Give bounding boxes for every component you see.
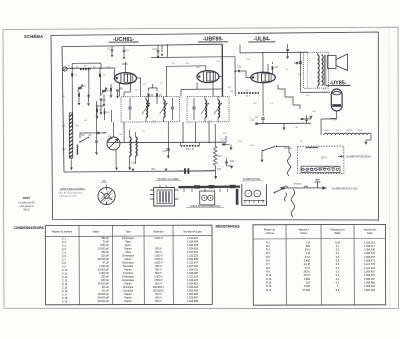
wire UCH81 top	[125, 62, 127, 73]
core arrows MF2	[201, 103, 222, 114]
coil L4	[77, 145, 78, 155]
svg-text:1 M: 1 M	[306, 241, 310, 244]
svg-text:15k: 15k	[120, 89, 123, 91]
svg-text:1.326.898: 1.326.898	[187, 300, 199, 303]
wire antenna upper link	[72, 62, 101, 64]
resistor R16	[88, 94, 90, 97]
transformer block inner	[157, 190, 172, 204]
ground arrow at bus 3	[165, 169, 168, 172]
wire heater start	[320, 119, 322, 135]
wire UCH81 grid	[114, 69, 116, 78]
svg-text:Secteur: Secteur	[284, 147, 292, 150]
svg-text:+: +	[256, 192, 258, 196]
small switch drawing right	[275, 189, 284, 193]
wire R6 R7 tie	[149, 87, 158, 89]
wire MF2 pri top	[204, 97, 206, 100]
svg-text:R10: R10	[230, 161, 235, 163]
svg-text:R5 1 M: R5 1 M	[186, 149, 193, 151]
wire UCH81 cathode	[130, 84, 132, 92]
fuse bumps on mains wire	[284, 186, 308, 188]
variable capacitor C7	[102, 90, 106, 91]
wire UL84 grid in	[246, 77, 251, 79]
capacitor C11	[157, 51, 160, 52]
ground	[123, 57, 126, 60]
svg-text:R 2: R 2	[266, 245, 271, 248]
arrowhead C1	[111, 55, 113, 58]
wire UY85 to heater	[330, 118, 337, 120]
svg-text:bobinage du cadre: bobinage du cadre	[59, 195, 78, 197]
switch contact oscillator	[80, 138, 88, 142]
svg-text:a été portée à: a été portée à	[20, 205, 35, 208]
wire avc up	[225, 136, 227, 142]
tube V3 UL84 envelope	[251, 72, 276, 82]
svg-text:La valeur de R3: La valeur de R3	[19, 201, 36, 204]
wire UCH81 plate out	[137, 77, 141, 79]
capacitor C22	[305, 119, 308, 120]
interconnect cable	[178, 185, 240, 188]
ground	[78, 103, 81, 106]
ground	[96, 116, 99, 119]
svg-text:470 K: 470 K	[303, 274, 310, 277]
mains switch	[263, 146, 276, 150]
wire L3 up b	[135, 132, 137, 137]
wire B+ down	[300, 52, 302, 92]
junction audio line	[234, 71, 236, 73]
transformer pin 5	[174, 198, 178, 200]
svg-text:C15: C15	[238, 67, 243, 69]
svg-text:Sens de l’enroulement du: Sens de l’enroulement du	[58, 191, 83, 194]
svg-text:470k: 470k	[238, 141, 242, 143]
transformer pin 4	[174, 189, 178, 191]
svg-text:12,6V: 12,6V	[358, 130, 364, 132]
svg-text:0,25: 0,25	[335, 241, 340, 244]
wire UBF89 grid top	[166, 65, 205, 68]
wire MF1 sec to grid	[165, 66, 167, 97]
svg-text:260 K: 260 K	[303, 271, 310, 274]
svg-text:2.400: 2.400	[304, 260, 311, 263]
svg-text:6,3V: 6,3V	[336, 130, 341, 132]
resistor R14	[299, 61, 301, 64]
staircase feedback wire	[278, 85, 300, 109]
wire mains alt	[280, 187, 327, 189]
svg-text:1.093.427: 1.093.427	[364, 271, 376, 274]
capacitor C4 cathode	[261, 118, 264, 119]
svg-text:Valeur: Valeur	[92, 230, 99, 233]
svg-text:47k: 47k	[186, 63, 189, 65]
wire drop to AGC bus	[167, 45, 169, 58]
svg-text:R 14: R 14	[266, 289, 272, 292]
svg-text:2,2 M: 2,2 M	[304, 263, 310, 266]
wire heater end	[370, 135, 372, 140]
svg-text:0,1: 0,1	[336, 274, 340, 277]
ground arrow at bus 2	[132, 169, 135, 172]
svg-text:0,2: 0,2	[336, 289, 340, 292]
wire UBF89 lower bus	[181, 88, 223, 90]
wire R13 bottom	[215, 166, 217, 175]
svg-text:1.387.904: 1.387.904	[364, 289, 376, 292]
svg-text:Code: Code	[367, 232, 373, 235]
output transformer T1 can	[303, 52, 328, 88]
capacitor C21	[255, 123, 258, 124]
resistor R3	[104, 111, 106, 114]
wire MF2 pri bot	[204, 118, 206, 123]
svg-text:0,5: 0,5	[336, 263, 340, 266]
wire R13 top	[214, 124, 216, 146]
transformer pin 2	[150, 194, 154, 196]
coil T1 secondary	[322, 55, 324, 86]
svg-text:1.093.467: 1.093.467	[364, 274, 376, 277]
wire MF drop c	[208, 122, 210, 142]
capacitor C19	[225, 162, 228, 163]
svg-text:1.800: 1.800	[304, 278, 311, 281]
svg-text:ALIMENTATION BOIS: ALIMENTATION BOIS	[346, 156, 371, 159]
svg-text:56 K: 56 K	[305, 249, 310, 252]
wire C10 drop	[123, 46, 125, 50]
capacitor C5	[100, 99, 103, 100]
svg-text:0,2: 0,2	[336, 281, 340, 284]
svg-text:NOTA: NOTA	[23, 196, 30, 200]
alimentation pin	[253, 201, 255, 204]
capacitors table column line	[143, 225, 145, 304]
svg-text:1.093.881: 1.093.881	[364, 281, 376, 284]
wire UBF89 diode down	[196, 83, 198, 90]
svg-text:1.093.330: 1.093.330	[364, 249, 376, 252]
svg-text:0,1: 0,1	[336, 252, 340, 255]
svg-text:R 6: R 6	[266, 260, 271, 263]
svg-text:RÉSISTANCES: RÉSISTANCES	[216, 224, 241, 229]
ground under L1	[70, 167, 73, 170]
wire UL84 anode up	[262, 53, 264, 73]
svg-text:R 8: R 8	[266, 267, 271, 270]
svg-text:R13: R13	[218, 156, 223, 158]
wire screen rail	[222, 44, 224, 96]
wire tone line	[256, 122, 311, 125]
svg-text:Watts: Watts	[334, 232, 341, 235]
wire L3 up a	[129, 130, 131, 137]
capacitors table frame	[45, 225, 212, 305]
coil L3 primary	[130, 137, 132, 156]
svg-text:C17: C17	[221, 140, 226, 142]
core arrows MF1	[142, 103, 168, 114]
wire HT line to output transformer	[240, 51, 308, 54]
schematic outer frame	[51, 32, 378, 220]
svg-text:ALIMENTATION S 205: ALIMENTATION S 205	[332, 188, 358, 191]
cable tap	[191, 189, 193, 192]
wire AGC bus	[151, 56, 235, 59]
svg-text:R 7: R 7	[266, 263, 271, 266]
wire UBF89 plate out	[219, 76, 223, 78]
capacitor C12 in MF1	[128, 107, 131, 109]
wire L3 down b	[135, 156, 137, 164]
ground	[116, 96, 119, 99]
wire top HT bus	[62, 44, 222, 46]
svg-text:1 M: 1 M	[306, 252, 310, 255]
wire C1 drop	[111, 46, 113, 49]
transformer pin 1	[150, 189, 154, 191]
resistor R13 vertical zigzag	[214, 146, 217, 166]
wire antenna bus	[67, 67, 115, 69]
resistor R1 dashed body	[80, 68, 91, 70]
capacitors table column line	[112, 225, 114, 304]
svg-text:27.000: 27.000	[302, 289, 310, 292]
svg-text:0,1: 0,1	[336, 249, 340, 252]
svg-text:Numéro de Code: Numéro de Code	[183, 230, 202, 233]
capacitor C13 in MF1	[171, 107, 174, 109]
svg-text:1.121.313: 1.121.313	[364, 267, 376, 270]
wire drop to tuner a	[71, 77, 73, 129]
fuse symbol	[306, 147, 318, 148]
cable tap	[183, 189, 185, 192]
svg-text:R 5: R 5	[266, 256, 271, 259]
svg-text:Secteur: Secteur	[294, 183, 302, 186]
plug symbol	[315, 180, 321, 188]
coil MF2 primary	[205, 100, 207, 118]
resistor R5 dashed body	[181, 145, 200, 147]
svg-text:R 10: R 10	[266, 274, 272, 277]
svg-text:Isolement: Isolement	[153, 230, 164, 233]
resistor R3 dashed body	[238, 92, 259, 94]
svg-text:47 K: 47 K	[305, 267, 310, 270]
alimentation chassis drawing	[242, 184, 267, 205]
wire screen feed drop	[221, 44, 223, 96]
capacitor C2 blob	[99, 74, 101, 77]
svg-text:C11: C11	[153, 48, 158, 51]
ground	[95, 152, 98, 155]
wire link tie a	[71, 63, 73, 68]
wire heater left	[303, 118, 312, 120]
svg-text:0,1: 0,1	[336, 278, 340, 281]
wire L3 down a	[129, 156, 131, 168]
resistor R12	[222, 144, 226, 146]
wire MF1 pri bot	[145, 118, 147, 123]
mains cord squiggle 2	[291, 189, 295, 217]
capacitor C20	[286, 49, 289, 50]
wire UCH81 pin down	[119, 84, 121, 97]
wire switch to box	[277, 145, 290, 147]
ground tone line	[283, 128, 286, 131]
wire C11 drop	[157, 45, 159, 50]
resistor R4	[110, 88, 112, 92]
T1 inner dotted	[307, 54, 309, 88]
wire MF1 cap	[129, 98, 131, 107]
ground	[157, 56, 160, 59]
variable capacitor C6	[78, 87, 82, 88]
svg-text:0,1: 0,1	[336, 256, 340, 259]
trimmer capacitor C8	[98, 132, 99, 135]
transformer top tab b	[165, 185, 167, 188]
alimentation pin	[258, 201, 260, 204]
svg-text:50u: 50u	[306, 95, 309, 97]
capacitor C1 blob	[71, 73, 73, 76]
ground heater	[365, 142, 368, 145]
resistor R7	[156, 93, 158, 97]
ground under gang	[115, 168, 118, 171]
svg-text:1.093.487: 1.093.487	[364, 278, 376, 281]
wire C20 drop	[287, 44, 289, 49]
wire detector filter drop	[167, 122, 169, 156]
svg-text:R12: R12	[217, 169, 222, 171]
svg-text:3.300: 3.300	[304, 285, 311, 288]
wire audio line	[234, 57, 236, 96]
svg-text:CONDENSATEURS: CONDENSATEURS	[14, 226, 45, 230]
svg-text:1.093.467: 1.093.467	[364, 256, 376, 259]
capacitor C9	[116, 90, 119, 91]
fold line lower	[377, 220, 379, 224]
wire MF1 pri top	[145, 97, 147, 100]
wire MF drop b	[194, 122, 196, 143]
svg-text:R 1: R 1	[266, 241, 271, 244]
core line T1 a	[323, 55, 325, 86]
wire osc drop	[123, 122, 125, 143]
arrow to label alimentation bois	[338, 155, 344, 157]
resistors table column line	[285, 225, 287, 306]
wire UL84 cathode down	[262, 83, 264, 116]
tube V4 UY85 envelope	[331, 89, 342, 111]
cable tap	[204, 189, 206, 192]
svg-text:R 13: R 13	[266, 285, 272, 288]
resistors table column line	[320, 225, 322, 306]
ground	[103, 104, 106, 107]
wire chassis bottom bus	[64, 171, 215, 172]
ground switch	[261, 160, 264, 163]
tube V1 UCH81 envelope	[115, 73, 137, 84]
svg-text:1.093.347: 1.093.347	[364, 252, 376, 255]
tuning gang CV	[107, 137, 120, 150]
junction heater	[310, 116, 313, 119]
svg-text:C 19: C 19	[62, 300, 68, 303]
svg-text:U5TW: U5TW	[347, 130, 353, 132]
wire C18 to R13	[189, 170, 215, 172]
svg-text:38.000 pF: 38.000 pF	[98, 300, 110, 303]
capacitor C24	[301, 118, 304, 119]
electrolytic capacitor C18	[178, 170, 184, 172]
capacitors table column line	[172, 225, 174, 305]
wire drop to tuner b	[99, 77, 101, 96]
wire UBF89 pin to MF2	[212, 83, 214, 97]
ground	[147, 105, 150, 108]
capacitor padder	[95, 141, 98, 142]
transformer block outline	[154, 188, 175, 207]
loudspeaker LS1	[328, 56, 337, 69]
wire padder	[96, 101, 98, 140]
wire gang up	[112, 122, 114, 137]
svg-text:L.2: L.2	[62, 147, 66, 151]
voltage selector plate	[301, 166, 340, 172]
svg-text:R 9: R 9	[266, 271, 271, 274]
wire C19 to ground	[227, 165, 232, 167]
svg-text:2M: 2M	[107, 67, 110, 69]
wire link tie b	[100, 63, 102, 68]
wire C7 to ground	[103, 94, 105, 103]
mains cord squiggle	[288, 152, 291, 176]
resistors table column line	[353, 225, 355, 306]
svg-text:6V45: 6V45	[325, 130, 331, 132]
coil T1 primary	[318, 55, 320, 86]
wire gang left bus	[80, 132, 107, 134]
crease line right	[388, 28, 391, 308]
connector socket box	[200, 191, 215, 205]
svg-text:C16: C16	[163, 151, 168, 153]
svg-text:C13: C13	[250, 120, 255, 122]
svg-text:56 kΩ: 56 kΩ	[24, 209, 30, 211]
svg-text:R 12: R 12	[266, 281, 272, 284]
wire B+ bus to UY85	[301, 91, 331, 93]
resistor R8	[272, 66, 274, 70]
wire L1 to chassis	[70, 158, 72, 167]
svg-text:Papier: Papier	[124, 300, 131, 303]
resistor R15	[78, 93, 80, 97]
svg-text:SCHÉMA: SCHÉMA	[24, 34, 43, 39]
wire MF drop a	[182, 122, 184, 143]
alimentation terminal strip	[244, 199, 265, 201]
svg-text:H.P.: H.P.	[102, 180, 107, 183]
ground under L3	[128, 168, 131, 171]
transformer pin 3	[150, 198, 154, 200]
capacitor C14 in MF2	[192, 107, 195, 109]
svg-text:1.520.314: 1.520.314	[364, 285, 376, 288]
cable tap	[227, 189, 229, 192]
svg-text:0,1: 0,1	[336, 267, 340, 270]
wire UL84 g2	[267, 64, 269, 72]
svg-text:Type: Type	[126, 230, 132, 233]
wire AGC drop from bus	[161, 45, 163, 52]
svg-text:0,1: 0,1	[336, 245, 340, 248]
antenna input jack	[63, 67, 67, 71]
alimentation pin	[249, 201, 251, 204]
svg-text:47 K: 47 K	[305, 256, 310, 259]
wire left rail	[62, 47, 64, 172]
ground	[286, 56, 289, 59]
svg-text:Repère du schéma: Repère du schéma	[52, 230, 73, 233]
capacitor C23	[296, 62, 297, 65]
IF transformer can MF1	[121, 96, 180, 122]
ground	[87, 103, 90, 106]
cable end bar	[236, 189, 239, 205]
svg-text:R 3: R 3	[266, 249, 271, 252]
wire AVC bus	[108, 141, 226, 143]
tube V2 UBF89 envelope	[197, 71, 219, 83]
svg-text:schéma: schéma	[265, 232, 274, 235]
wire gang to chassis	[115, 150, 117, 168]
arrowhead to cable	[214, 176, 217, 179]
svg-text:R 11: R 11	[266, 278, 272, 281]
HP dial hatch	[101, 191, 114, 204]
svg-text:500 V: 500 V	[155, 300, 162, 303]
ground	[167, 156, 170, 159]
wire tuning drop	[88, 68, 90, 96]
power selector box	[298, 146, 344, 174]
heater chain winding	[324, 133, 371, 135]
svg-text:230 V: 230 V	[321, 157, 328, 160]
resistors table header line	[253, 238, 385, 241]
svg-text:Osc: Osc	[119, 134, 123, 136]
capacitor C1	[111, 50, 114, 51]
coil MF1 primary	[146, 100, 148, 118]
svg-text:680: 680	[306, 245, 311, 248]
wire tuner drop x111	[111, 110, 113, 122]
svg-text:1.500 V: 1.500 V	[154, 237, 163, 240]
svg-text:1.093.471: 1.093.471	[364, 260, 376, 263]
ground	[100, 112, 103, 115]
resistor R6	[148, 93, 150, 97]
svg-text:0,1: 0,1	[336, 271, 340, 274]
arrowhead AGC drop	[161, 54, 163, 57]
IF transformer can MF2	[187, 96, 229, 122]
ground	[230, 148, 233, 151]
capacitors table header line	[45, 236, 212, 237]
resistor R2	[96, 109, 98, 113]
resistors table frame	[253, 224, 386, 305]
